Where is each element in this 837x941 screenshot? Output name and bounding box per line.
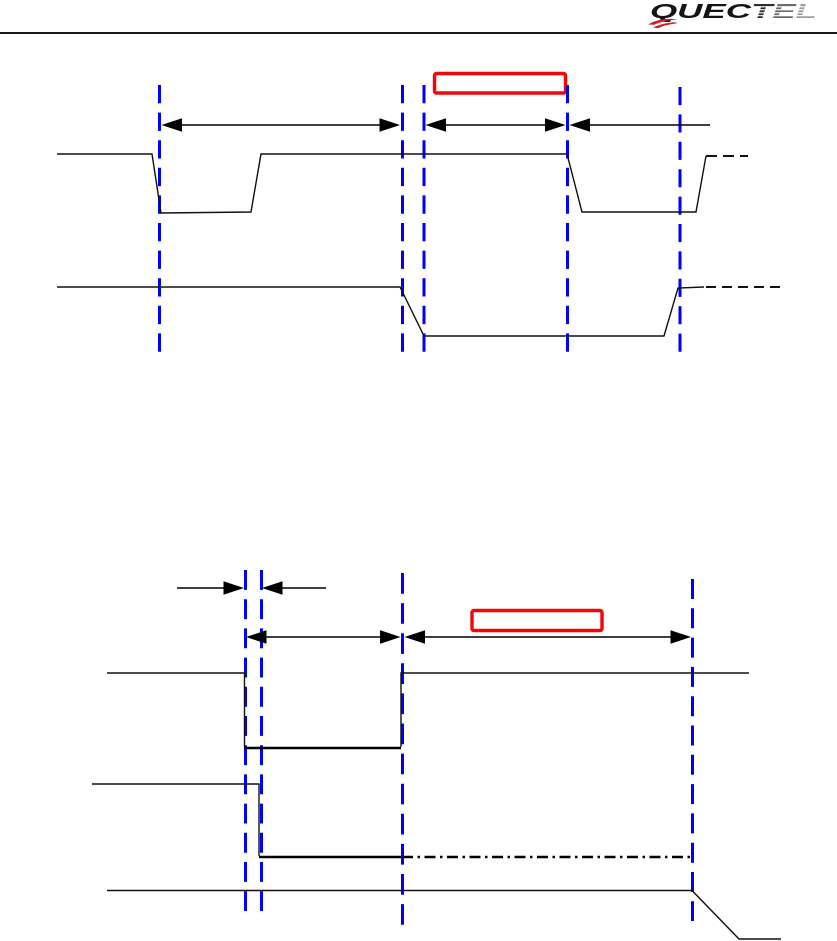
blue dashed guide line A <box>158 85 161 352</box>
blue dashed guide line D <box>566 85 569 352</box>
blue dashed guide line G <box>260 570 263 911</box>
waveform 2 (bottom signal, diagram 1) <box>57 287 704 336</box>
waveform 2 bold low segment <box>259 856 401 859</box>
small gap arrow right <box>262 581 326 595</box>
double measurement arrow H-I <box>405 630 692 644</box>
waveform 1 (top signal, diagram 2) falling part <box>107 673 245 747</box>
blue dashed guide line H <box>401 573 404 925</box>
logo red swoosh <box>648 19 677 25</box>
waveform 2 trailing dashes <box>706 286 786 288</box>
blue dashed guide line B <box>401 85 404 352</box>
blue dashed guide line C <box>423 85 426 352</box>
blue dashed guide line E <box>679 87 682 352</box>
double measurement arrow A-B <box>162 118 401 132</box>
waveform 2 dash-dot continuation <box>402 856 692 858</box>
waveform 1 (top signal, diagram 1) <box>57 154 706 213</box>
waveform 3 (bottom signal, diagram 2) <box>107 891 781 940</box>
blue dashed guide line I <box>691 579 694 921</box>
small gap arrow left <box>177 581 244 595</box>
logo stripe cuts <box>753 7 818 16</box>
double measurement arrow C-D <box>426 118 566 132</box>
Quectel logo <box>648 1 818 28</box>
waveform 2 (middle signal, diagram 2) falling part <box>92 784 259 856</box>
red highlight box 2 <box>472 611 602 631</box>
double measurement arrow F-H <box>246 630 401 644</box>
red highlight box 1 <box>435 74 566 94</box>
waveform 1 rising part <box>401 673 749 747</box>
header rule <box>0 32 837 34</box>
blue dashed guide line F <box>244 570 247 911</box>
single left arrow from D <box>570 118 711 132</box>
waveform 1 trailing dashes <box>706 155 748 157</box>
waveform 1 bold low segment <box>245 747 402 750</box>
